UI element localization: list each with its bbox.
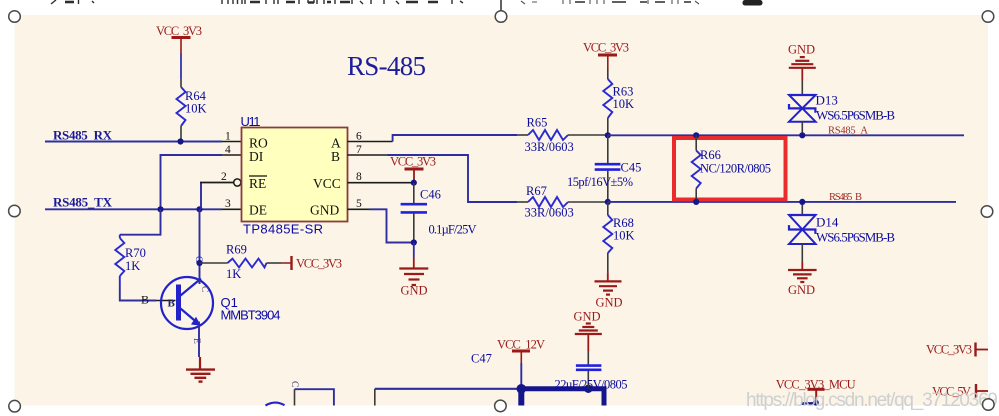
wire GND pin to C46 <box>369 209 414 242</box>
resistor R63 <box>603 69 634 135</box>
svg-text:GND: GND <box>401 284 428 298</box>
node junction RX/R64 <box>177 138 183 144</box>
node junction VCC_12V/bus <box>517 384 527 394</box>
wire RS485_TX <box>45 208 222 210</box>
capacitor C45 <box>567 135 641 201</box>
svg-text:https://blog.csdn.net/qq_37120: https://blog.csdn.net/qq_37120369 <box>746 390 998 411</box>
node junction C46/GND wire <box>411 239 417 245</box>
wire R70 branch <box>120 209 161 234</box>
svg-text:R70: R70 <box>125 246 146 260</box>
wire thick bus <box>521 389 604 406</box>
capacitor C47 <box>471 351 628 392</box>
svg-text:1K: 1K <box>226 267 241 281</box>
svg-text:10K: 10K <box>613 97 635 111</box>
svg-text:R69: R69 <box>226 243 247 257</box>
power port VCC_3V3 (R69) <box>292 256 343 271</box>
svg-text:R66: R66 <box>700 148 721 162</box>
svg-text:B: B <box>141 293 149 307</box>
svg-text:VCC: VCC <box>313 176 341 191</box>
wire RS485_RX <box>45 141 222 143</box>
svg-text:R65: R65 <box>527 116 548 130</box>
svg-text:DI: DI <box>249 149 264 164</box>
op-amp U11 body <box>242 128 348 222</box>
svg-text:WS6.5P6SMB-B: WS6.5P6SMB-B <box>816 108 895 123</box>
svg-text:C: C <box>199 286 209 292</box>
svg-text:7: 7 <box>356 144 362 156</box>
resistor R67 <box>517 184 608 220</box>
wire B net <box>388 155 518 202</box>
svg-text:GND: GND <box>596 296 623 310</box>
svg-text:33R/0603: 33R/0603 <box>525 140 574 154</box>
svg-text:6: 6 <box>356 130 362 142</box>
wire VCC_3V3_MCU stub <box>803 403 818 405</box>
ground C46 <box>399 243 428 298</box>
node junction pin8/C46 <box>411 180 417 186</box>
svg-text:RE: RE <box>249 176 266 191</box>
svg-text:RS485_RX: RS485_RX <box>53 128 113 143</box>
node junction B/R68/C45 <box>605 199 611 205</box>
handle bottom-right <box>983 399 995 411</box>
handle top-right <box>982 11 994 23</box>
ground Q1 emitter <box>186 357 215 382</box>
svg-text:GND: GND <box>788 283 815 297</box>
svg-text:VCC_3V3: VCC_3V3 <box>390 155 436 169</box>
svg-text:3: 3 <box>225 198 231 210</box>
resistor R68 <box>603 202 634 273</box>
handle bottom-left <box>9 400 21 412</box>
handle top-left <box>9 11 21 23</box>
svg-text:1: 1 <box>225 131 231 143</box>
cropped text row (top) <box>51 0 763 6</box>
pin 6 A <box>348 141 393 143</box>
svg-text:C47: C47 <box>471 352 492 366</box>
handle top-center <box>495 11 507 23</box>
svg-text:15pf/16V±5%: 15pf/16V±5% <box>567 175 633 189</box>
svg-text:C: C <box>289 381 299 387</box>
pin 5 GND <box>348 208 370 210</box>
svg-text:D13: D13 <box>816 93 838 108</box>
highlight box (red) <box>674 138 786 200</box>
node junction TX/Q1 <box>196 206 202 212</box>
node junction R69 <box>196 260 202 266</box>
ground D14 <box>788 262 817 297</box>
wire RE branch <box>200 183 202 210</box>
power port VCC_3V3 (R63) <box>583 41 629 70</box>
svg-text:10K: 10K <box>613 229 635 243</box>
svg-text:TP8485E-SR: TP8485E-SR <box>243 222 323 237</box>
svg-text:DE: DE <box>249 203 267 218</box>
wire R70 to Q1 base <box>120 286 156 301</box>
svg-text:R67: R67 <box>526 184 547 198</box>
ground R68 <box>595 272 623 309</box>
svg-text:B: B <box>331 149 340 164</box>
node junction R66 bottom <box>693 199 699 205</box>
svg-text:VCC_12V: VCC_12V <box>497 338 545 352</box>
svg-text:GND: GND <box>574 310 601 324</box>
capacitor C46 <box>401 183 477 243</box>
svg-text:1K: 1K <box>125 259 140 273</box>
svg-text:VCC_3V3: VCC_3V3 <box>156 24 202 38</box>
svg-text:WS6.5P6SMB-B: WS6.5P6SMB-B <box>816 230 895 245</box>
svg-text:VCC_3V3: VCC_3V3 <box>583 41 629 55</box>
wire A net <box>393 135 517 142</box>
node junction D14/B <box>799 199 805 205</box>
transistor arc (bottom, cut) <box>266 403 285 406</box>
pin 7 B <box>348 154 388 156</box>
power port VCC_3V3 (right tick) <box>926 343 988 357</box>
svg-text:C46: C46 <box>420 188 441 202</box>
svg-text:RS485_B: RS485_B <box>829 192 862 203</box>
pin 3 DE <box>222 208 242 210</box>
resistor R69 <box>200 243 292 282</box>
handle mid-right <box>981 206 993 218</box>
node junction C47/bus <box>584 385 592 393</box>
svg-text:10K: 10K <box>185 102 207 116</box>
svg-text:MMBT3904: MMBT3904 <box>221 308 281 323</box>
resistor R70 <box>115 235 146 286</box>
power port VCC_5V (right tick) <box>932 384 988 399</box>
handle mid-left <box>9 205 21 217</box>
svg-text:22uF/25V/0805: 22uF/25V/0805 <box>555 378 628 392</box>
diode D13 (TVS) <box>789 81 895 136</box>
power port VCC_3V3_MCU <box>776 378 856 402</box>
svg-text:GND: GND <box>310 203 339 218</box>
power port GND (D13, inverted) <box>788 43 816 81</box>
svg-text:8: 8 <box>356 171 362 183</box>
handle stem top-center <box>500 0 502 11</box>
resistor R66 <box>692 135 771 202</box>
svg-text:RS-485: RS-485 <box>347 51 426 81</box>
svg-text:NC/120R/0805: NC/120R/0805 <box>700 162 771 176</box>
pin 4 DI <box>222 154 242 156</box>
svg-text:33R/0603: 33R/0603 <box>525 206 574 220</box>
svg-text:C45: C45 <box>621 161 642 175</box>
handle bottom-center <box>495 400 507 412</box>
diode D14 (TVS) <box>789 202 895 262</box>
part box (bottom, cut) <box>294 389 296 405</box>
wire Q1 collector <box>199 209 201 284</box>
power port VCC_3V3 (pin 8) <box>390 155 436 183</box>
wire Q1 emitter <box>198 322 200 358</box>
svg-text:VCC_3V3: VCC_3V3 <box>926 343 972 357</box>
pin 1 RO <box>222 141 242 143</box>
svg-text:U11: U11 <box>241 114 261 129</box>
svg-text:5: 5 <box>356 198 362 210</box>
resistor R65 <box>525 116 608 155</box>
svg-text:GND: GND <box>788 43 815 57</box>
power port VCC_12V <box>497 338 545 364</box>
wire net RS485_B <box>608 201 956 203</box>
svg-text:D14: D14 <box>816 215 839 230</box>
transistor Q1 <box>161 256 281 344</box>
svg-text:4: 4 <box>225 144 231 156</box>
node junction TX/DI/R70 <box>157 206 163 212</box>
svg-text:RS485_A: RS485_A <box>828 126 868 137</box>
node junction D13/A <box>799 132 805 138</box>
node junction R66 top <box>693 132 699 138</box>
svg-text:B: B <box>168 298 176 310</box>
resistor R64 <box>177 79 207 142</box>
pin 8 VCC <box>348 182 414 184</box>
wire DI branch <box>161 155 223 209</box>
wire thin left bus <box>375 388 522 390</box>
power port VCC_3V3 (top left) <box>156 24 202 53</box>
svg-text:VCC_3V3: VCC_3V3 <box>296 257 342 271</box>
pin 2 RE with bubble <box>200 182 234 184</box>
wire VCC_12V down <box>520 363 522 389</box>
wire VCC_3V3 to R64 <box>180 53 182 79</box>
node junction A/R63/C45 <box>605 132 611 138</box>
svg-text:RS485_TX: RS485_TX <box>53 195 113 210</box>
power port GND (C47, inverted) <box>574 310 602 352</box>
wire net RS485_A <box>608 134 964 136</box>
svg-text:0.1µF/25V: 0.1µF/25V <box>429 223 477 237</box>
svg-text:2: 2 <box>221 171 227 183</box>
